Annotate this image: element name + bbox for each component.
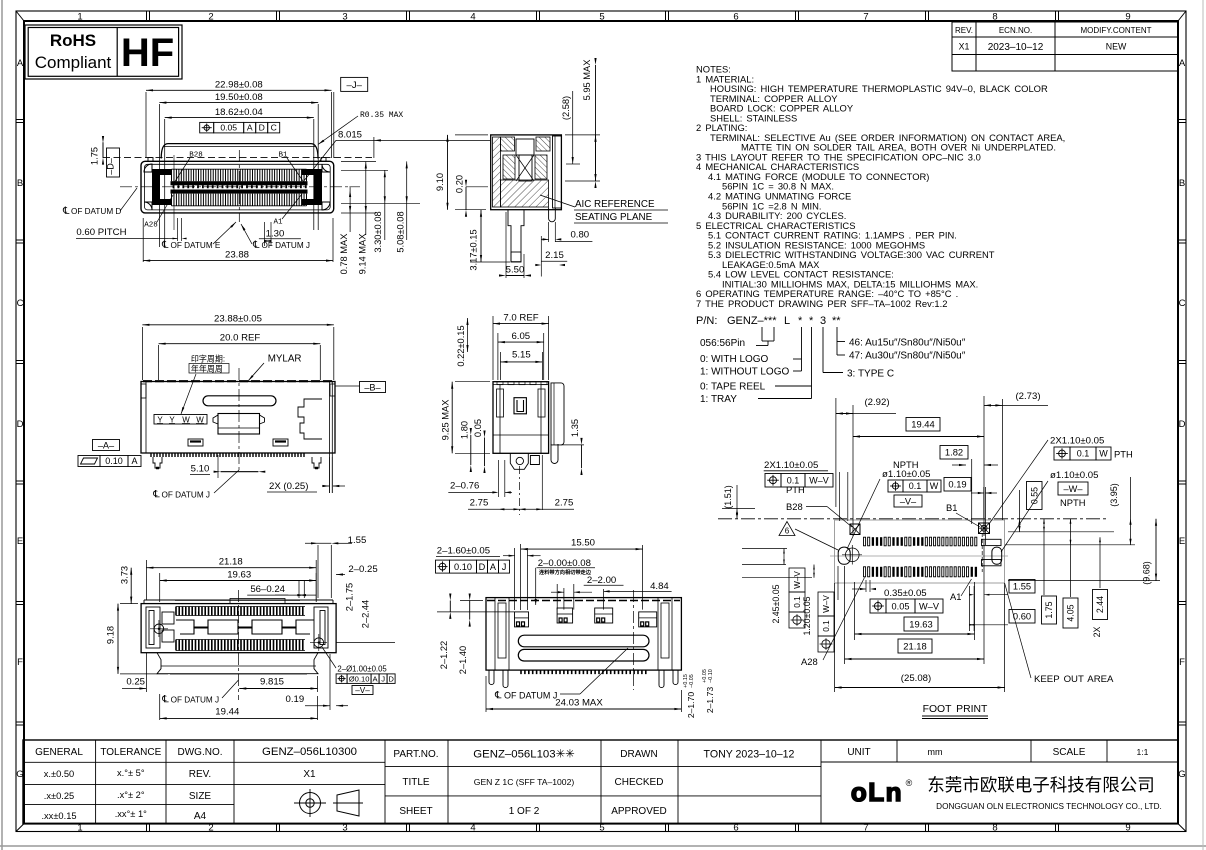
svg-text:PTH: PTH [786,484,805,495]
svg-text:9.14 MAX: 9.14 MAX [358,234,368,275]
svg-text:F: F [1179,657,1185,668]
svg-text:0.22±0.15: 0.22±0.15 [456,325,466,366]
svg-text:1 OF 2: 1 OF 2 [509,806,540,817]
svg-text:3: 3 [342,12,347,23]
svg-text:P/N:: P/N: [696,315,717,327]
box 4.05 fp rot [1063,598,1078,628]
svg-text:3.30±0.08: 3.30±0.08 [373,211,383,252]
svg-text:R0.35 MAX: R0.35 MAX [360,111,403,120]
RoHS compliance box [25,25,182,79]
front view contact bands [171,181,308,185]
datum V flag fp [894,495,922,507]
svg-text:℄: ℄ [152,490,160,501]
svg-text:TONY 2023–10–12: TONY 2023–10–12 [704,749,795,761]
svg-text:2.75: 2.75 [470,498,489,509]
svg-text:0.05: 0.05 [220,123,237,133]
svg-text:2–Ø1.00±0.05: 2–Ø1.00±0.05 [337,665,387,674]
svg-text:年年周周: 年年周周 [191,364,223,374]
svg-text:B28: B28 [189,152,203,160]
svg-text:7.0 REF: 7.0 REF [503,313,538,324]
svg-text:℄: ℄ [161,695,169,706]
svg-text:C: C [271,123,277,133]
svg-text:A: A [490,562,497,572]
dim 19.44 fp [906,418,940,432]
svg-text:℄: ℄ [494,691,502,702]
svg-text:TOLERANCE: TOLERANCE [100,747,161,758]
svg-text:22.98±0.08: 22.98±0.08 [215,80,263,91]
mid section right pin leg [551,444,558,464]
svg-text:1.75: 1.75 [90,147,100,165]
svg-text:1:1: 1:1 [1137,747,1149,757]
zone row ticks left [16,119,24,121]
projection symbol [300,793,321,814]
svg-text:21.18: 21.18 [219,556,243,567]
svg-text:.xx±0.15: .xx±0.15 [41,811,76,821]
fcf bm [436,560,450,573]
bm right detail [657,598,659,670]
svg-text:OF DATUM J: OF DATUM J [171,696,220,705]
mid section top teeth [493,384,549,386]
svg-text:24.03 MAX: 24.03 MAX [555,698,603,709]
svg-text:PART.NO.: PART.NO. [393,749,438,760]
svg-text:4.05: 4.05 [1066,604,1076,621]
mid section right mylar tab [551,383,564,445]
svg-text:4: 4 [470,12,475,23]
svg-text:A: A [131,456,137,466]
svg-text:L: L [784,315,790,327]
svg-text:0.1: 0.1 [909,481,922,491]
svg-text:mm: mm [928,747,943,757]
corner diagonals [16,11,24,21]
datum W flag [1058,482,1088,495]
fcf left PTH [765,474,781,488]
top view right thin pins [329,457,331,493]
svg-text:Compliant: Compliant [35,53,112,72]
svg-text:3: 3 [820,315,826,327]
datum J flag [341,77,368,91]
svg-text:SEATING PLANE: SEATING PLANE [575,212,653,223]
dim 19.50 [158,104,160,247]
bm right legs [659,670,678,688]
fp right stadium pad [992,547,1002,564]
svg-text:.x±0.25: .x±0.25 [44,791,74,801]
title block [23,740,1178,824]
svg-text:(2.58): (2.58) [561,96,571,120]
svg-text:A: A [247,123,253,133]
fcf rot left2 [818,592,834,652]
bm stadium slots [518,635,649,647]
bm section body [486,598,681,671]
svg-text:B1: B1 [946,502,957,513]
svg-text:0.20: 0.20 [455,175,465,193]
svg-text:–0.05: –0.05 [689,674,695,688]
svg-text:APPROVED: APPROVED [611,806,667,817]
svg-text:W: W [1099,449,1108,459]
svg-text:*: * [809,315,814,327]
bm dashed top edge [487,600,680,602]
svg-text:9.25 MAX: 9.25 MAX [441,400,451,441]
svg-text:2–2.00: 2–2.00 [587,575,616,586]
svg-text:E: E [17,536,23,547]
fp pad row top [864,537,866,546]
svg-text:9.815: 9.815 [260,677,284,688]
top view tongue [218,414,260,435]
svg-text:®: ® [906,778,913,788]
svg-text:3.73: 3.73 [120,566,130,584]
svg-text:连料带方向相切带走边: 连料带方向相切带走边 [539,568,592,576]
bottom view right end cap [314,607,328,648]
mid section key slot [514,398,526,414]
svg-text:2.44: 2.44 [1095,596,1105,613]
fcf right PTH [1054,447,1070,460]
svg-text:ECN.NO.: ECN.NO. [999,26,1032,35]
svg-text:0.80: 0.80 [570,230,589,241]
top view left edge details [145,382,147,454]
svg-text:℄: ℄ [161,240,169,251]
svg-text:DWG.NO.: DWG.NO. [178,747,223,758]
svg-text:FOOT PRINT: FOOT PRINT [923,704,988,715]
svg-text:0.35±0.05: 0.35±0.05 [884,588,927,599]
svg-text:8.015: 8.015 [338,129,362,140]
svg-text:56–0.24: 56–0.24 [250,584,285,595]
svg-text:2: 2 [208,12,213,23]
svg-text:0.1: 0.1 [822,620,831,632]
svg-text:J: J [381,674,385,683]
svg-text:B: B [17,178,23,189]
bottom view bottom comb [176,640,303,651]
side section right shell [553,136,562,208]
dim 23.88 bottom [142,218,144,262]
top view centerline [238,368,240,472]
svg-text:2–0.00±0.08: 2–0.00±0.08 [538,558,591,569]
dim 21.18 bv [145,560,147,600]
svg-text:2–1.60±0.05: 2–1.60±0.05 [437,546,490,557]
svg-text:21.18: 21.18 [903,640,926,651]
svg-text:2–1.75: 2–1.75 [345,583,355,611]
top view bottom teeth [151,453,304,457]
revision table [952,22,1178,71]
box 1.75 fp rot [1042,596,1057,624]
dim 24.03 MAX [485,676,487,712]
svg-text:23.88±0.05: 23.88±0.05 [214,314,262,325]
top view crenellation right [298,399,322,439]
svg-text:1: 1 [77,12,82,23]
svg-text:RoHS: RoHS [50,31,96,50]
fp B1 flank rects [982,539,1002,545]
svg-text:2X (0.25): 2X (0.25) [269,481,308,492]
dim 19.44 bv [159,694,161,720]
svg-text:SHEET: SHEET [399,806,432,817]
top view latch rects [188,439,203,446]
fp triangle 6 [779,522,795,536]
pn leader packing [811,327,813,399]
svg-text:2–0.76: 2–0.76 [450,481,479,492]
fp pad row bottom [864,567,866,577]
svg-text:UNIT: UNIT [847,747,870,758]
svg-text:0.25: 0.25 [126,677,145,688]
svg-text:TITLE: TITLE [402,777,430,788]
svg-text:C: C [17,298,24,309]
svg-text:2X1.10±0.05: 2X1.10±0.05 [1050,436,1104,447]
svg-text:x.±0.50: x.±0.50 [44,769,74,779]
svg-text:2.75: 2.75 [555,498,574,509]
svg-text:REV.: REV. [189,769,211,780]
svg-text:PTH: PTH [1114,449,1133,460]
svg-text:–B–: –B– [364,382,381,392]
bottom view top comb [176,607,303,616]
datum A flag [93,440,120,451]
mid section body [493,382,549,454]
datum V flag bv [352,686,373,695]
fp B1 square pad [979,523,990,534]
front view centerlines [120,186,360,188]
title block middle [447,740,449,824]
dim 22.98 [145,92,147,158]
fp centerline horizontal [718,518,1108,520]
svg-text:20.0 REF: 20.0 REF [220,332,261,343]
box 21.18 fp [898,639,932,653]
svg-text:15.50: 15.50 [571,538,595,549]
svg-text:x.°± 5°: x.°± 5° [117,768,145,778]
svg-text:OF DATUM E: OF DATUM E [171,241,221,250]
svg-text:7: 7 [863,12,868,23]
box 0.60 fp [1009,610,1035,624]
dim 5.15 [499,352,501,380]
svg-text:E: E [1179,536,1185,547]
svg-text:A28: A28 [801,656,818,667]
svg-text:1.20±0.05: 1.20±0.05 [802,596,812,635]
box 1.82 [940,446,968,460]
front view right end bracket [302,169,322,205]
zone column ticks bottom [146,824,148,832]
svg-text:23.88: 23.88 [225,250,249,261]
bm clips [515,612,529,627]
svg-text:D: D [259,123,265,133]
svg-text:1.82: 1.82 [945,447,963,458]
svg-text:19.50±0.08: 19.50±0.08 [215,92,263,103]
zone column ticks top [146,11,148,21]
side section slot [516,139,534,155]
svg-text:(2.73): (2.73) [1015,391,1040,402]
pn leader type [822,327,824,373]
svg-text:0.10: 0.10 [105,456,123,466]
svg-text:0.10: 0.10 [454,562,472,572]
svg-text:9: 9 [1125,12,1130,23]
svg-text:W–V: W–V [919,601,940,611]
svg-text:–W–: –W– [1064,484,1084,494]
fcf rot left1 [789,568,805,628]
svg-text:GENERAL: GENERAL [35,747,83,758]
front view contact comb rows [172,169,307,206]
svg-text:19.44: 19.44 [911,419,934,430]
page edge shading [1,0,3,850]
fp left stadium pad [838,547,850,564]
side section bottom pegs [508,210,524,262]
svg-text:0.19: 0.19 [948,479,966,490]
svg-text:1.55: 1.55 [348,535,367,546]
svg-text:A4: A4 [194,811,207,822]
svg-text:5.95 MAX: 5.95 MAX [582,60,592,101]
top view right edge details [329,382,331,458]
front view body outline [141,161,334,213]
svg-text:0.1: 0.1 [793,596,802,608]
svg-text:1.35: 1.35 [570,419,580,437]
svg-text:5.15: 5.15 [512,350,531,361]
datum D flag rotated [107,148,120,177]
top view mylar dashed edge [143,380,333,382]
front view mating dashed line [103,157,372,159]
svg-text:2.45±0.05: 2.45±0.05 [771,584,781,623]
svg-text:19.44: 19.44 [215,707,240,718]
svg-text:DONGGUAN OLN ELECTRONICS TECHN: DONGGUAN OLN ELECTRONICS TECHNOLOGY CO.,… [936,802,1162,811]
svg-text:9.18: 9.18 [106,626,116,644]
top view body [141,382,335,454]
svg-text:G: G [1178,769,1185,780]
bottom view right circle [314,638,324,648]
svg-text:(3.95): (3.95) [1109,483,1119,507]
svg-text:ø1.10±0.05: ø1.10±0.05 [1050,470,1098,481]
svg-text:D: D [388,674,394,683]
svg-text:4.84: 4.84 [650,581,669,592]
svg-text:(1.51): (1.51) [723,485,733,509]
svg-text:3.17±0.15: 3.17±0.15 [469,229,479,270]
svg-text:–A–: –A– [98,440,115,450]
bm left detail [494,598,496,670]
svg-text:X1: X1 [959,42,970,52]
svg-text:–V–: –V– [355,686,370,695]
bm left legs [489,670,508,688]
svg-text:B28: B28 [786,501,803,512]
svg-text:NEW: NEW [1106,42,1127,52]
svg-text:.xx°± 1°: .xx°± 1° [115,809,147,819]
svg-text:W–V: W–V [822,595,831,613]
bottom view lower flange [157,653,318,674]
svg-text:Ø0.10: Ø0.10 [349,674,370,683]
fp keepout outline [835,520,1005,583]
pn leader logo [801,327,803,371]
datum B flag [360,382,386,393]
mid section bottom pin circle [510,453,528,469]
svg-text:B1: B1 [278,152,288,160]
side section right pin [549,208,556,222]
dim 15.50 [521,548,643,550]
dim 7.0 REF [492,316,494,380]
svg-text:2023–10–12: 2023–10–12 [988,42,1044,53]
svg-text:056:56Pin: 056:56Pin [700,338,745,349]
svg-text:0.60: 0.60 [1013,611,1031,622]
svg-text:**: ** [832,315,841,327]
svg-text:GENZ–056L10300: GENZ–056L10300 [262,746,357,758]
mid section inner walls [499,385,501,454]
top view oval slot [203,396,276,406]
front view corner scallops [144,164,152,172]
svg-text:B: B [1179,178,1185,189]
svg-text:REV.: REV. [955,26,973,35]
svg-text:oLn: oLn [851,777,903,807]
fcf mid [888,480,903,492]
svg-text:–0.10: –0.10 [708,669,714,683]
svg-text:5.08±0.08: 5.08±0.08 [396,211,406,252]
svg-text:W–V: W–V [809,476,829,486]
svg-text:1.75: 1.75 [1044,601,1054,618]
svg-text:D: D [1179,419,1186,430]
svg-text:8: 8 [992,12,997,23]
fp left extension lines [837,566,839,600]
fp mid grey line [830,555,1008,557]
svg-text:0.19: 0.19 [286,694,305,705]
fcf parallelism A [78,456,100,467]
bottom view centerline v5 [238,590,240,700]
svg-text:GENZ–***: GENZ–*** [727,315,777,327]
svg-text:5.10: 5.10 [191,464,210,475]
top view left pin legs [153,457,162,468]
svg-text:Y: Y [157,415,163,424]
svg-text:MODIFY.CONTENT: MODIFY.CONTENT [1081,26,1152,35]
box 2.44 fp rot [1093,590,1108,620]
front view left end bracket [152,169,172,205]
svg-text:GEN Z 1C (SFF TA–1002): GEN Z 1C (SFF TA–1002) [474,777,575,787]
box 0.55 rotated [1027,482,1043,510]
svg-text:6: 6 [785,527,790,536]
svg-text:46: Au15u″/Sn80u″/Ni50u″: 46: Au15u″/Sn80u″/Ni50u″ [849,338,966,349]
svg-text:–D–: –D– [106,158,116,175]
dim 19.63 bv [159,573,161,602]
svg-text:(9.68): (9.68) [1142,561,1152,585]
svg-text:MYLAR: MYLAR [268,354,302,365]
dim 18.62 [164,119,166,247]
svg-text:2X1.10±0.05: 2X1.10±0.05 [764,460,818,471]
svg-text:–J–: –J– [347,80,363,91]
svg-text:0.1: 0.1 [1077,449,1090,459]
dim 20.0 REF [158,345,160,380]
svg-text:5: 5 [599,12,604,23]
fcf position 0.05 A D C [200,122,214,132]
svg-text:Y: Y [169,415,175,424]
svg-text:0: WITH LOGO: 0: WITH LOGO [700,354,769,365]
svg-text:W: W [930,481,939,491]
svg-text:9.10: 9.10 [435,173,445,191]
svg-text:(25.08): (25.08) [901,673,931,684]
svg-text:℄: ℄ [62,206,70,217]
side section seating leader [540,195,575,207]
zone row ticks right [1178,119,1186,121]
svg-text:东莞市欧联电子科技有限公司: 东莞市欧联电子科技有限公司 [927,775,1155,795]
pn leader plating [836,327,838,355]
svg-text:OF DATUM D: OF DATUM D [71,207,121,216]
svg-text:0.05: 0.05 [473,419,483,437]
svg-text:ø1.10±0.05: ø1.10±0.05 [882,469,930,480]
svg-text:1.55: 1.55 [1013,581,1031,592]
svg-text:W–V: W–V [793,571,802,589]
svg-text:*: * [798,315,803,327]
box 0.19 [944,478,971,492]
svg-text:A1: A1 [273,219,283,227]
svg-text:SIZE: SIZE [189,791,212,802]
front view top cover [161,144,318,159]
svg-text:D: D [479,562,486,572]
svg-text:OF DATUM J: OF DATUM J [504,691,557,701]
svg-text:6.05: 6.05 [511,331,530,342]
svg-text:X1: X1 [303,769,316,780]
svg-text:1: WITHOUT LOGO: 1: WITHOUT LOGO [700,367,789,378]
svg-text:2X: 2X [1092,626,1102,637]
svg-text:W: W [196,415,204,424]
svg-text:2–0.25: 2–0.25 [348,564,377,575]
bottom view left end cap [146,607,160,648]
svg-text:19.63: 19.63 [909,618,932,629]
svg-text:2.15: 2.15 [545,250,564,261]
svg-text:A1: A1 [950,591,961,602]
